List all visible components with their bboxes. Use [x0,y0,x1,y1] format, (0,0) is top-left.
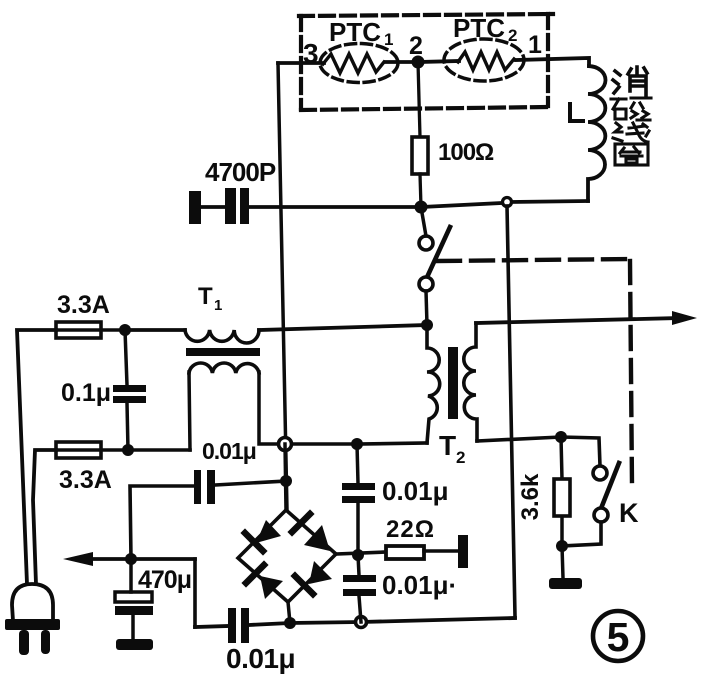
wire 470u lead [129,559,133,592]
wire T1 to switch node [259,325,427,330]
junction dot fuse2 [122,444,134,456]
cap chain wire middle [356,503,360,555]
terminal bar 22ohm [458,535,468,568]
junction dot 3.6k top [555,431,567,443]
cap chain wire top [357,444,358,483]
open circle cap chain bottom [356,617,367,628]
svg-text:0.01μ: 0.01μ [382,476,449,506]
svg-text:2: 2 [409,32,423,60]
svg-text:K: K [619,498,639,528]
resistor 3.6k body [554,479,570,516]
svg-text:3.3A: 3.3A [57,291,110,319]
resistor PTC1 zigzag [323,54,384,73]
wire 100ohm to junction [420,174,421,207]
switch K arm [600,463,619,511]
left arrowhead [63,552,93,566]
wire bridge right to 22ohm [336,552,386,554]
wire terminal to 4700P [201,205,228,209]
bridge bottom lead [288,602,290,623]
AC plug body [12,584,53,621]
wire PTC1 to node 2 [386,60,418,64]
diode D3 bottom-right bar [295,576,313,594]
chinese label ci [611,98,651,120]
wire fuse2 dot to T1 secondary left [128,448,190,452]
degauss return vertical V2 [507,206,515,618]
svg-text:5: 5 [607,614,630,660]
svg-text:3.3A: 3.3A [59,466,112,494]
svg-text:100Ω: 100Ω [438,139,494,166]
svg-text:1: 1 [214,297,222,314]
svg-text:470μ: 470μ [138,566,191,594]
output arrowhead [672,311,697,325]
main wire to T1 [125,328,185,332]
PTC module dashed box [299,14,553,110]
junction dot 470u node [125,553,137,565]
capacitor 4700P plates [225,188,236,224]
wire junction to switch [421,207,426,236]
svg-text:3.6k: 3.6k [517,473,544,520]
diode D1 top-left bar [245,533,263,551]
svg-text:T: T [439,430,456,461]
fuse F2 3.3A [56,448,128,452]
bridge rectifier diamond [238,510,336,602]
diode D4 triangle [260,576,283,599]
capacitor 0.01u bottom plates [228,608,236,643]
wire fuse1 dot to 0.1u to fuse2 dot [125,330,127,385]
svg-text:22Ω: 22Ω [386,516,435,543]
svg-text:1: 1 [384,30,393,49]
PTC2 dashed ellipse [444,39,524,81]
transformer T1 core bar [186,348,260,356]
chinese label xian [613,123,649,142]
dashed linkage horizontal [438,259,629,261]
circled figure number 5 [593,611,643,661]
wire B: T2 right winding bottom to K [477,437,600,466]
wire to ground [562,546,563,578]
switch S1 top circle [419,236,433,250]
junction dot ground node [556,540,568,552]
switch K top circle [593,466,607,480]
svg-text:0.01μ: 0.01μ [226,643,295,674]
resistor 100 ohm body [412,137,428,174]
wire 4700P to junction [249,205,421,209]
transformer T2 core bar [448,347,458,419]
svg-text:4700P: 4700P [205,157,276,187]
capacitor 470u hollow plate [115,592,152,602]
inductor L degaussing coil [588,66,605,201]
wire switch to main wire dot [426,291,427,325]
capacitor 4700P terminal bar [189,191,201,224]
T1 secondary right lead [259,372,285,444]
switch K bottom circle [594,508,608,522]
transformer T1 secondary [189,363,259,373]
wire tap to 100ohm node [421,203,502,207]
chinese label quan [615,144,648,165]
transformer T1 primary [185,330,259,343]
resistor PTC2 zigzag [458,52,514,70]
svg-text:PTC: PTC [453,13,505,43]
svg-text:2: 2 [456,448,465,467]
wire cap to V1 dot [215,481,286,485]
PTC1 dashed ellipse [320,44,398,83]
junction dot bridge bottom [284,617,296,629]
capacitor 0.01u left plates [194,470,201,504]
junction dot wire A / cap chain [351,438,363,450]
capacitor 0.01u chain top plates [342,483,375,490]
transformer T2 right winding [464,323,477,441]
cap chain wire lower [358,555,359,575]
svg-text:0.1μ: 0.1μ [61,379,111,407]
node 2 junction dot [412,56,425,69]
wire K bottom to ground dot [562,522,601,546]
node small circle degauss return tap [503,198,512,207]
chinese label xiao [613,67,647,95]
diode D1 triangle [256,520,281,543]
switch S1 arm [423,227,450,286]
switch S1 bottom circle [419,277,433,291]
wire L bottom to degauss return [512,201,588,202]
svg-text:0.01μ·: 0.01μ· [382,570,457,600]
svg-text:T: T [198,283,213,310]
ground bar 470u [116,639,153,650]
junction dot main/T2/switch [421,319,433,331]
junction dot 4700P line [415,201,428,214]
label L [570,104,583,121]
svg-text:1: 1 [528,31,542,59]
left arrow wire [88,557,195,561]
capacitor 0.1u plates [113,385,146,392]
T1 secondary left lead [189,372,190,450]
wire corner down to bottom wire [193,559,197,627]
wire 22ohm to terminal bar [424,549,459,553]
vertical line node2 down [418,62,420,137]
diode D2 triangle [304,525,330,551]
diode D3 triangle [309,561,332,584]
wire node2 to PTC2 [418,61,459,62]
capacitor 470u solid plate [115,606,153,615]
transformer T2 left winding [427,325,440,443]
svg-text:3: 3 [303,38,319,69]
junction dot 22ohm node [352,549,364,561]
bottom wire [195,626,228,627]
junction dot fuse1 [119,324,131,336]
fuse F1 3.3A [56,328,125,332]
neutral wire corner to fuse2 [33,450,56,584]
open circle junction on V1 [279,438,292,451]
dc branch wire corner to cap [130,486,194,559]
dashed linkage vertical [630,261,632,485]
cap chain wire to bottom [359,596,361,622]
resistor 22ohm body [386,546,424,559]
main live wire left corner to fuse [17,330,56,584]
wire node3 to PTC1 [278,61,324,65]
svg-text:0.01μ: 0.01μ [202,438,256,464]
bridge top lead [285,444,286,510]
capacitor 0.01u chain bottom plates [343,575,376,582]
svg-text:PTC: PTC [329,17,381,47]
AC plug base bar [5,619,60,630]
wire A: T1 secondary to T2 left winding bottom [285,442,357,446]
ground bar right [549,578,582,589]
output arrow wire [476,318,680,323]
AC plug prong left [19,630,29,655]
resistor 3.6k leads [561,437,562,479]
diode D2 top-right bar [292,514,310,532]
svg-text:2: 2 [508,26,517,45]
wire PTC2 to node1 and corner [516,58,589,66]
AC plug prong right [41,630,50,654]
diode D4 bottom-left bar [246,565,264,583]
junction dot bridge top branch [280,475,292,487]
vertical line V1 from node3 corner down to bridge [278,63,287,510]
